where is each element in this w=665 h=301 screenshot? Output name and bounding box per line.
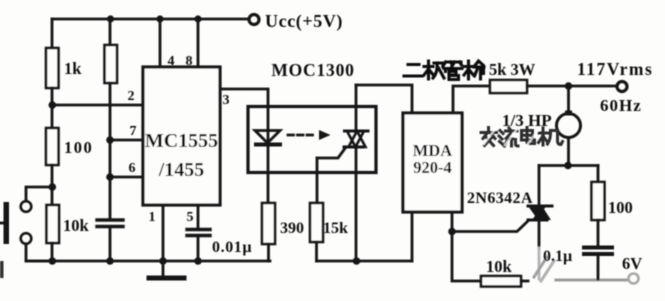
wire pin8 [197,19,200,67]
wire motor bottom lead [567,138,570,166]
node A dot [49,101,57,109]
wire C3 bottom lead [597,255,600,279]
wire triac MT1 faint [538,248,541,279]
wire 100 to C3 [597,220,600,246]
svg-text:920-4: 920-4 [413,158,452,177]
wire pin7 to pin6 [109,140,112,177]
node dot snubber [564,162,572,170]
node dot C2-rail [194,257,202,265]
node dot gate [448,228,456,236]
svg-text:MC1555: MC1555 [145,130,218,152]
watermark slash 2 [541,261,554,281]
svg-text:7: 7 [130,124,137,139]
wire MT2 to MDA [356,85,412,113]
resistor R9 100 [592,182,605,220]
wire Vcc top rail [52,18,248,21]
node dot rail-R2 [107,15,114,22]
node dot pin7 [106,136,114,144]
wire ground rail [26,260,270,263]
triac in opto [344,131,368,147]
wire opto-triac MT2 up [355,85,358,132]
wire triac MT2 [538,166,541,207]
svg-text:5: 5 [187,210,194,225]
resistor R5 390 [262,203,275,244]
resistor R6 15k [310,203,323,242]
wire 5k to source [527,85,617,88]
node dot C1-rail [106,257,114,265]
svg-text:6V: 6V [622,254,642,273]
wire R2 to pin7 [109,83,112,140]
terminal 117V [617,82,627,92]
wire 10k top lead [51,187,54,205]
watermark slash 1 [534,257,547,277]
op-amp U1 MC1555 box [143,67,220,205]
wire triac MT1 [538,220,541,248]
node dot rail-pin4 [156,15,163,22]
svg-text:100: 100 [64,138,93,157]
svg-text:10k: 10k [63,216,90,235]
wire snubber node [539,164,598,167]
wire gate node down [452,232,481,282]
wire gate to 15k [316,158,319,203]
wire 15k bottom lead [315,242,318,261]
svg-text:15k: 15k [323,220,348,237]
node dot rail-pin8 [194,15,201,22]
resistor R4 10k [47,205,60,243]
svg-text:100: 100 [608,198,633,217]
wire pin7 [110,139,143,142]
opto-coupler U2 MOC1300 box [248,107,376,173]
wire switch bottom [26,244,52,261]
wire 10k right lead [521,280,528,283]
pushbutton switch S1 [0,201,31,244]
svg-text:Ucc(+5V): Ucc(+5V) [265,11,343,32]
wire pin3 [220,89,268,131]
wire C2 bottom lead [197,236,200,261]
svg-text:117Vrms: 117Vrms [577,59,653,79]
svg-text:60Hz: 60Hz [600,96,642,115]
node dot MT1-rail [353,257,361,265]
node B dot [49,183,57,191]
svg-text:3: 3 [223,93,230,108]
capacitor C2 0.01u [187,230,210,236]
svg-text:2: 2 [128,89,135,104]
wire opto-triac MT1 down [355,147,358,262]
svg-text:2N6342A: 2N6342A [467,190,533,207]
LED D1 [255,131,280,145]
resistor R8 10k [481,276,521,287]
terminal Ucc [249,15,259,25]
wire pin4 [159,19,162,67]
wire MDA to gate node [451,212,454,232]
wire 100 bottom lead [51,165,54,187]
wire pin6 to C1 [109,177,112,219]
wire pin6 [110,176,143,179]
svg-text:4: 4 [168,54,175,69]
svg-text:/1455: /1455 [158,159,205,181]
svg-text:1: 1 [149,210,156,225]
wire 10k bottom lead [51,243,54,261]
wire triac gate [452,220,529,232]
resistor R7 5k 3W [490,80,527,93]
triac Q1 2N6342A [528,206,552,220]
wire motor top lead [567,86,570,114]
svg-text:6: 6 [129,161,136,176]
wire MT1 rail [317,260,413,263]
capacitor C1 [97,220,123,227]
node dot 10k-rail [49,257,57,265]
arrow opto [288,130,331,140]
node dot pin1-rail [159,257,167,265]
resistor R1 1k [46,48,59,88]
svg-text:0.01µ: 0.01µ [212,239,252,256]
capacitor C3 0.1u [584,248,612,255]
wire 1k top lead [51,19,54,48]
wire rail to MDA bottom [411,212,414,261]
wire 390 bottom lead [267,244,270,261]
resistor R3 100 [46,128,59,165]
label diode bridge chinese [404,61,484,80]
terminal neutral faint [629,274,639,284]
svg-text:0.1µ: 0.1µ [543,248,572,265]
ground [149,261,184,278]
edge smudge [0,261,4,278]
wire pin5 [197,205,200,228]
wire opto gate step [317,147,346,158]
label ac motor chinese [481,128,563,147]
wire LED cathode to 390 [267,131,270,204]
bridge U3 MDA box [403,113,462,212]
svg-text:5k 3W: 5k 3W [489,60,536,79]
svg-text:10k: 10k [486,257,513,276]
wire 1k bottom lead [51,88,54,105]
resistor R2 [105,45,118,83]
wire pin2 [52,104,143,107]
svg-text:1k: 1k [64,59,82,78]
motor M [557,111,581,138]
wire 100 top lead [597,166,600,183]
wire MDA right up [453,86,490,113]
node dot pin6 [106,173,114,181]
wire R2 top lead [109,19,112,45]
wire neutral rail faint [556,279,628,282]
svg-text:MOC1300: MOC1300 [271,60,354,80]
wire pin1 [162,205,165,261]
svg-text:390: 390 [280,220,304,237]
node dot motor tap [565,82,573,90]
wire 100 top lead [51,105,54,128]
wire C1 bottom lead [109,227,112,261]
svg-text:8: 8 [186,54,193,69]
wire switch top [26,187,52,201]
